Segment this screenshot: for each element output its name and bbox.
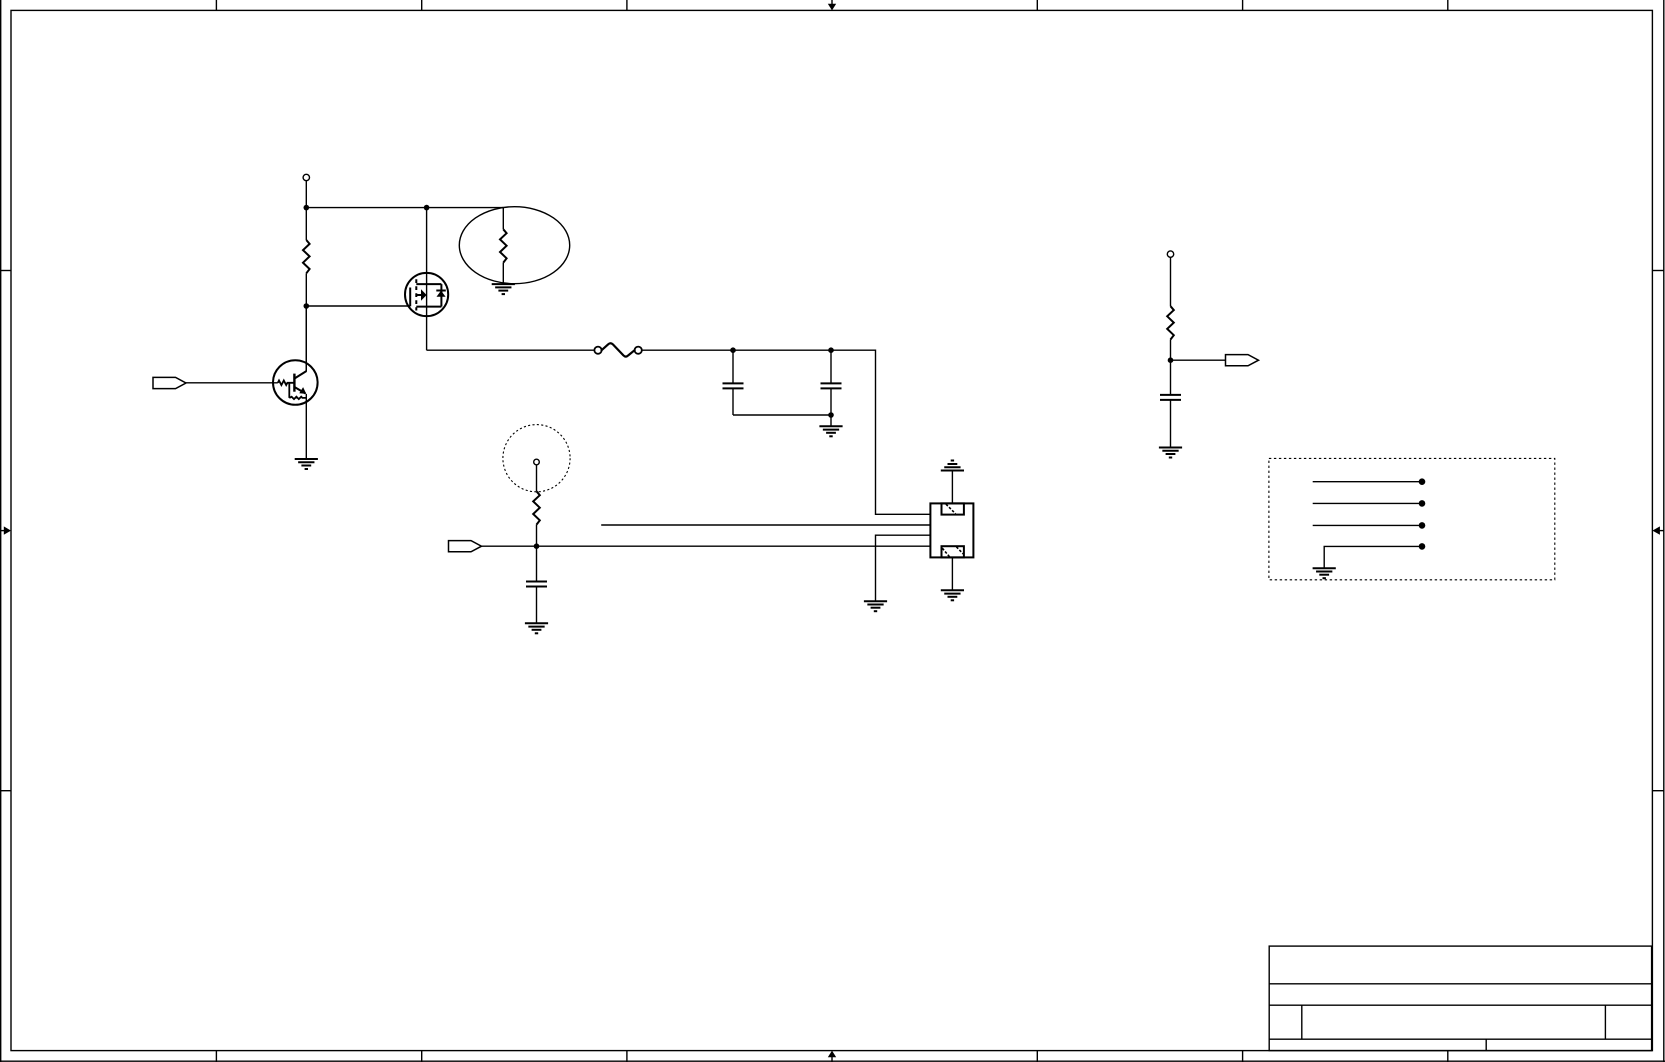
wire [1170,340,1172,361]
junction [730,347,736,353]
junction [424,205,430,211]
ground [295,459,318,469]
header pin 4 [1324,543,1425,568]
junction [828,347,834,353]
ground [525,623,548,633]
wire [951,557,953,590]
test point (dashed circle) [503,425,570,492]
junction [304,303,310,309]
load ellipse LS1 [459,207,569,284]
wire [482,545,931,547]
header pin 3 [1313,522,1426,529]
wire [601,524,930,526]
capacitor C1 [723,350,744,415]
junction [1168,357,1174,363]
ground [1313,568,1336,578]
wire [305,273,307,371]
ground [941,590,964,600]
wire [306,305,410,307]
mosfet Q1 [405,208,448,351]
ground [864,601,887,611]
terminal pad P1 [303,174,309,180]
capacitor C4 [1160,360,1181,447]
junction [304,205,310,211]
input flag [449,541,482,552]
header pin 1 [1313,478,1426,485]
junction [828,412,834,418]
wire [642,350,931,514]
connector J1 [930,503,973,557]
title block [1269,946,1651,1051]
wire [951,471,953,504]
wire [427,349,595,351]
ground [1159,448,1182,458]
capacitor C2 [821,350,842,426]
wire [305,181,307,240]
wire [306,207,503,209]
wire [186,382,278,384]
transistor Q2 (digital NPN) [273,306,318,459]
wire [1170,257,1172,306]
ground [492,284,515,294]
wire [536,465,538,492]
junction [534,543,540,549]
resistor R1 [303,240,310,273]
option box (dashed) [1269,458,1555,579]
wire [536,525,538,547]
output flag [1226,355,1259,366]
capacitor C3 [526,546,547,623]
ground [819,426,842,436]
resistor R4 [1167,306,1174,339]
ground (inverted) [941,461,964,471]
input flag [153,377,186,388]
wire [876,535,931,601]
wire [1171,359,1226,361]
fuse F1 [594,343,641,356]
wire [733,414,831,416]
header pin 2 [1313,500,1426,507]
terminal pad P2 [1167,251,1173,257]
resistor R3 [533,491,540,524]
